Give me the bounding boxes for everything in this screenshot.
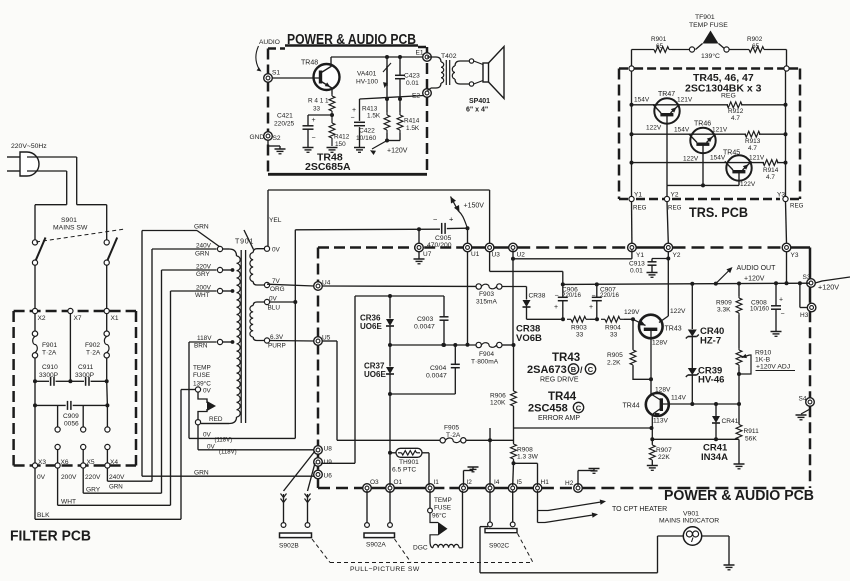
- svg-text:+: +: [312, 117, 316, 124]
- terminal X1: [104, 308, 109, 313]
- connector pins inside filter pcb: [57, 405, 59, 427]
- resistor R412 150: [331, 115, 333, 123]
- svg-text:C909: C909: [63, 413, 79, 420]
- svg-text:U2: U2: [517, 252, 526, 259]
- terminal X7: [68, 308, 73, 313]
- main pcb right border: [809, 248, 812, 279]
- svg-text:R413: R413: [362, 106, 378, 113]
- wire TR47 emitter: [666, 114, 668, 185]
- wire emitters join: [667, 184, 739, 186]
- svg-text:O3: O3: [370, 479, 379, 486]
- svg-text:F904: F904: [479, 351, 494, 358]
- T901 secondary 1: [253, 249, 264, 253]
- svg-text:X3: X3: [38, 459, 46, 466]
- svg-text:REG: REG: [721, 93, 736, 100]
- svg-text:220V: 220V: [85, 474, 101, 481]
- resistor R904 33: [590, 318, 597, 320]
- svg-text:CR41: CR41: [722, 418, 739, 425]
- svg-text:HZ-7: HZ-7: [700, 336, 721, 347]
- svg-text:S902B: S902B: [279, 543, 299, 550]
- svg-text:F902: F902: [85, 342, 100, 349]
- svg-text:220V: 220V: [196, 264, 212, 271]
- svg-text:H2: H2: [565, 480, 574, 487]
- svg-text:0V: 0V: [37, 474, 46, 481]
- resistor R411 33: [331, 94, 333, 96]
- svg-text:+: +: [554, 304, 558, 311]
- wire TRS feed left: [631, 50, 633, 66]
- wire Y3 column: [786, 252, 788, 284]
- svg-text:DGC: DGC: [413, 545, 428, 552]
- svg-text:U1: U1: [471, 251, 480, 258]
- svg-text:TRS. PCB: TRS. PCB: [689, 204, 748, 220]
- wire 0V(118V) lower to U8: [197, 425, 199, 450]
- fuse F903 315mA: [476, 284, 481, 289]
- svg-text:1K-B: 1K-B: [755, 357, 771, 364]
- svg-text:UO6E: UO6E: [364, 370, 386, 379]
- svg-text:O1: O1: [394, 479, 403, 486]
- wire YEL 0V to U3 net: [267, 190, 269, 246]
- svg-text:154V: 154V: [710, 155, 726, 162]
- terminal U9: [314, 458, 323, 467]
- svg-text:AUDIO: AUDIO: [259, 39, 280, 46]
- svg-text:I2: I2: [467, 479, 473, 486]
- svg-text:WHT: WHT: [61, 499, 76, 506]
- svg-text:220/16: 220/16: [600, 292, 619, 299]
- svg-text:TR44: TR44: [623, 403, 640, 410]
- svg-text:REG: REG: [668, 205, 682, 212]
- wire TH901 to I1: [428, 459, 430, 485]
- svg-text:−: −: [555, 293, 559, 300]
- svg-text:TH901: TH901: [399, 459, 419, 466]
- wire switch to X1: [106, 265, 108, 308]
- svg-text:TEMP: TEMP: [434, 497, 452, 504]
- terminal X2: [32, 308, 37, 313]
- svg-text:121V: 121V: [677, 97, 693, 104]
- svg-text:10/160: 10/160: [750, 306, 769, 313]
- wire U9 link: [321, 462, 355, 464]
- wire U1 column: [467, 228, 469, 243]
- svg-text:RED: RED: [209, 416, 223, 423]
- wire TR44 base line 114V: [663, 403, 739, 405]
- wire U9 to S902B: [308, 463, 316, 491]
- svg-text:R912: R912: [728, 108, 744, 115]
- to cpt heater arrows: [537, 491, 539, 523]
- svg-text:C903: C903: [417, 316, 433, 323]
- svg-text:+: +: [779, 297, 783, 304]
- switch S902A: [366, 491, 368, 523]
- svg-text:T·2A: T·2A: [86, 350, 101, 357]
- terminal H2: [574, 484, 583, 493]
- svg-text:−: −: [312, 135, 316, 142]
- svg-text:200V: 200V: [61, 474, 77, 481]
- svg-text:4.7: 4.7: [766, 174, 775, 181]
- capacitor C913 0.01: [667, 252, 669, 259]
- terminal Y3 main: [782, 243, 791, 252]
- svg-text:POWER & AUDIO PCB: POWER & AUDIO PCB: [287, 32, 416, 48]
- svg-text:Y3: Y3: [791, 252, 799, 259]
- rectifier mid rail: [388, 343, 392, 347]
- transistor TR45 2SC1304BK: [726, 155, 751, 180]
- tap 220V: [217, 267, 222, 272]
- wire F905 junction to R906 bottom: [489, 428, 491, 440]
- fuse terminals TF901: [689, 47, 694, 52]
- svg-text:129V: 129V: [624, 309, 640, 316]
- svg-text:S901: S901: [61, 217, 77, 224]
- capacitor C909 0056: [34, 381, 36, 405]
- resistor R901 6.5: [632, 49, 652, 51]
- zener CR40 HZ-7: [691, 284, 693, 329]
- pin Y2: [664, 196, 669, 201]
- wire R908 to H1: [514, 462, 538, 464]
- svg-text:C422: C422: [359, 128, 375, 135]
- svg-text:0V: 0V: [203, 432, 212, 439]
- svg-text:C910: C910: [42, 364, 58, 371]
- ground above I2: [463, 471, 465, 486]
- svg-text:TR45: TR45: [723, 150, 740, 157]
- svg-text:X5: X5: [87, 459, 95, 466]
- terminal U1: [463, 243, 472, 252]
- resistor R909 3.3K: [738, 284, 740, 297]
- svg-text:GRN: GRN: [195, 251, 210, 258]
- terminal S4: [806, 398, 815, 407]
- switch S902C: [489, 491, 491, 522]
- trs pcb border: [619, 67, 629, 70]
- svg-text:+: +: [352, 107, 356, 114]
- svg-text:−: −: [351, 115, 355, 122]
- svg-text:−: −: [433, 215, 438, 224]
- wire 128V rail: [527, 318, 564, 320]
- wire BLU 0V to ground rail: [270, 301, 296, 303]
- transistor TR43 2SA673 reg drive: [639, 315, 663, 339]
- wire U3 column to +120 rail: [489, 252, 491, 272]
- fuse F905 T-2A: [337, 439, 440, 441]
- svg-text:121V: 121V: [712, 127, 728, 134]
- trs rail 2: [630, 132, 634, 136]
- svg-text:TF901: TF901: [695, 14, 715, 21]
- +150V arrow: [458, 211, 468, 229]
- main pcb left border: [317, 248, 320, 446]
- svg-text:FUSE: FUSE: [434, 505, 451, 512]
- svg-text:TEMP FUSE: TEMP FUSE: [689, 22, 728, 29]
- svg-text:65: 65: [752, 43, 760, 50]
- terminal S1: [264, 74, 273, 83]
- rectifier box top: [355, 295, 444, 297]
- wire collector rail E1: [331, 56, 423, 58]
- main pcb bottom border: [318, 487, 363, 490]
- tap 118V: [217, 339, 222, 344]
- svg-text:4.7: 4.7: [731, 115, 740, 122]
- H3 hook: [799, 283, 801, 307]
- trs rail 3: [630, 161, 634, 165]
- mains plug P901: [20, 152, 39, 176]
- svg-text:F905: F905: [444, 425, 459, 432]
- svg-text:WHT: WHT: [195, 292, 210, 299]
- svg-text:+150V: +150V: [464, 203, 485, 210]
- svg-text:IN34A: IN34A: [701, 452, 728, 463]
- svg-text:GRY: GRY: [196, 271, 210, 278]
- svg-text:139°C: 139°C: [193, 380, 211, 388]
- svg-text:TEMP: TEMP: [193, 365, 211, 372]
- svg-text:33: 33: [610, 332, 618, 339]
- +120V rail: [563, 283, 810, 284]
- svg-text:S2: S2: [273, 135, 281, 142]
- svg-text:TR43: TR43: [665, 326, 682, 333]
- wire 0V(118V) upper: [189, 437, 295, 439]
- svg-text:PULL−PICTURE SW: PULL−PICTURE SW: [350, 566, 420, 573]
- T901 primary winding: [217, 246, 222, 251]
- svg-text:X4: X4: [110, 459, 118, 466]
- svg-text:X2: X2: [38, 315, 46, 322]
- svg-text:GRN: GRN: [194, 224, 209, 231]
- svg-text:I5: I5: [517, 479, 523, 486]
- svg-text:(118V): (118V): [219, 450, 237, 456]
- svg-text:C423: C423: [404, 73, 420, 80]
- terminal U8: [314, 446, 323, 455]
- temp fuse 96C: [429, 491, 431, 508]
- main pcb top border: [318, 246, 416, 249]
- wire 240V X4 to 240V tap: [106, 468, 108, 481]
- zener CR39 HV-46: [688, 368, 697, 375]
- svg-text:TR46: TR46: [694, 121, 711, 128]
- svg-text:2SC458: 2SC458: [528, 403, 568, 415]
- svg-text:T·2A: T·2A: [42, 350, 57, 357]
- svg-text:R903: R903: [571, 325, 587, 332]
- terminal U6: [314, 470, 323, 479]
- svg-text:0.0047: 0.0047: [414, 324, 435, 331]
- resistor R908 1.3 3W: [513, 428, 515, 443]
- svg-text:128V: 128V: [652, 340, 668, 347]
- svg-text:200V: 200V: [196, 285, 212, 292]
- svg-text:S902A: S902A: [366, 542, 386, 549]
- svg-text:GRN: GRN: [194, 470, 209, 477]
- svg-text:R 4 1 1: R 4 1 1: [308, 98, 329, 105]
- +120V feed arrow: [372, 141, 387, 150]
- svg-text:470/200: 470/200: [427, 242, 452, 249]
- svg-text:U3: U3: [492, 252, 501, 259]
- terminal H3: [807, 303, 816, 312]
- svg-text:S4: S4: [799, 396, 807, 403]
- svg-text:R904: R904: [605, 325, 621, 332]
- svg-text:SP401: SP401: [469, 98, 490, 105]
- svg-text:H3: H3: [800, 312, 809, 319]
- svg-text:GRN: GRN: [109, 484, 123, 491]
- svg-text:ERROR AMP: ERROR AMP: [538, 415, 580, 422]
- svg-text:−: −: [781, 311, 785, 318]
- svg-text:BRN: BRN: [194, 343, 208, 350]
- wire X7 down: [69, 314, 71, 382]
- terminal Y1 main: [628, 243, 637, 252]
- svg-text:X7: X7: [74, 315, 82, 322]
- svg-text:1.5K: 1.5K: [367, 113, 381, 120]
- svg-text:2SA673: 2SA673: [527, 364, 567, 376]
- resistor R903 33: [567, 318, 571, 320]
- switch link dashed: [36, 229, 125, 242]
- wire U8 to S902B: [284, 451, 316, 491]
- terminal U5: [314, 337, 323, 346]
- svg-text:I4: I4: [494, 479, 500, 486]
- svg-text:Y1: Y1: [634, 192, 642, 199]
- svg-text:33: 33: [576, 332, 584, 339]
- wire DGC to I2: [462, 491, 464, 548]
- svg-text:113V: 113V: [653, 418, 669, 425]
- svg-text:0056: 0056: [64, 421, 79, 428]
- svg-text:R905: R905: [607, 352, 623, 359]
- wire TRS feed right: [786, 50, 788, 66]
- fuse F901 T-2A: [34, 314, 36, 331]
- thermistor TH901 6.5 PTC: [390, 452, 396, 454]
- wire V901 right to ground: [702, 535, 729, 537]
- svg-text:22K: 22K: [658, 454, 670, 461]
- svg-text:0V: 0V: [207, 444, 216, 451]
- svg-text:C: C: [576, 404, 582, 413]
- svg-text:FUSE: FUSE: [193, 372, 210, 379]
- tap 200V: [217, 288, 222, 293]
- ground above H2: [577, 471, 579, 486]
- svg-text:T402: T402: [441, 53, 457, 60]
- svg-text:TR43: TR43: [552, 352, 580, 364]
- svg-text:R908: R908: [517, 447, 533, 454]
- wire R413 R414 bottom: [387, 140, 400, 142]
- svg-text:B: B: [571, 365, 577, 374]
- svg-text:C905: C905: [435, 235, 451, 242]
- svg-text:H1: H1: [541, 479, 550, 486]
- wire PURP to U5: [270, 340, 314, 343]
- svg-text:220/25: 220/25: [274, 121, 295, 128]
- svg-text:U7: U7: [423, 251, 432, 258]
- wire O1 column: [389, 394, 391, 453]
- svg-text:TR44: TR44: [548, 391, 577, 403]
- svg-text:2.2K: 2.2K: [607, 360, 621, 367]
- svg-text:PURP: PURP: [268, 343, 286, 350]
- resistor R905 2.2K: [632, 319, 634, 349]
- terminal E2: [423, 89, 432, 98]
- wire zener bottom rail: [652, 438, 740, 440]
- wire U2 branch: [511, 257, 515, 261]
- svg-text:120K: 120K: [490, 400, 506, 407]
- wire Y2 to main border: [667, 202, 668, 244]
- terminal S2: [264, 132, 273, 141]
- wire GRN bus to U6: [141, 231, 143, 477]
- rectifier bottom rail: [390, 393, 455, 395]
- svg-text:GRY: GRY: [86, 487, 101, 494]
- svg-text:10/160: 10/160: [356, 135, 377, 142]
- wire X2-X3 column: [34, 405, 36, 465]
- wire switch to X2: [34, 265, 36, 308]
- svg-text:V901: V901: [683, 511, 699, 518]
- svg-text:CR38: CR38: [529, 293, 546, 300]
- svg-text:ORG: ORG: [270, 286, 285, 293]
- diode CR41 IN34A: [715, 404, 717, 416]
- switch S902B: [281, 523, 286, 528]
- svg-text:BLU: BLU: [268, 305, 281, 312]
- wire Y2 to TR43 collector: [667, 259, 669, 317]
- svg-text:C913: C913: [629, 261, 645, 268]
- capacitor C905 470/200: [441, 223, 443, 234]
- svg-text:S902C: S902C: [489, 543, 509, 550]
- svg-text:HV-100: HV-100: [356, 79, 378, 86]
- terminal X6: [55, 463, 60, 468]
- svg-text:4.7: 4.7: [748, 145, 757, 152]
- svg-text:(118V): (118V): [215, 438, 233, 444]
- svg-text:33: 33: [313, 106, 321, 113]
- svg-text:1.5K: 1.5K: [406, 125, 420, 132]
- svg-text:F903: F903: [479, 291, 494, 298]
- wire plug to switch: [27, 156, 77, 158]
- svg-text:3.3K: 3.3K: [717, 307, 731, 314]
- svg-text:VA401: VA401: [357, 71, 377, 78]
- wire Y3 to main border: [786, 202, 787, 244]
- svg-text:R914: R914: [763, 167, 779, 174]
- svg-text:R907: R907: [656, 447, 672, 454]
- trs rail 1: [631, 71, 633, 196]
- pin Y3: [783, 196, 788, 201]
- terminal X4: [105, 463, 110, 468]
- svg-text:TO CPT HEATER: TO CPT HEATER: [612, 506, 667, 513]
- svg-text:REG: REG: [633, 205, 647, 212]
- svg-text:Y3: Y3: [777, 192, 785, 199]
- audio pcb border: [268, 47, 285, 50]
- svg-text:3300P: 3300P: [75, 372, 95, 379]
- svg-text:2SC685A: 2SC685A: [305, 161, 351, 173]
- svg-text:AUDIO OUT: AUDIO OUT: [737, 265, 777, 272]
- svg-text:240V: 240V: [196, 243, 212, 250]
- svg-text:114V: 114V: [671, 395, 687, 402]
- svg-text:Y1: Y1: [636, 252, 644, 259]
- svg-text:E2: E2: [412, 93, 420, 100]
- audio out arrow: [716, 269, 731, 284]
- svg-text:+120V ADJ: +120V ADJ: [756, 364, 790, 371]
- svg-text:S3: S3: [803, 274, 811, 281]
- svg-text:154V: 154V: [674, 127, 690, 134]
- svg-text:X1: X1: [111, 315, 119, 322]
- svg-text:R910: R910: [755, 350, 771, 357]
- svg-text:U9: U9: [324, 459, 333, 466]
- wire 118V tap loop: [189, 341, 217, 343]
- svg-text:TR48: TR48: [301, 60, 318, 67]
- capacitor C908 10/160: [775, 283, 777, 305]
- svg-text:REG: REG: [790, 203, 804, 210]
- svg-text:GND: GND: [250, 134, 265, 141]
- wire 0V tap to BLK bus: [181, 389, 195, 391]
- svg-text:+120V: +120V: [744, 276, 765, 283]
- terminal H1: [533, 484, 542, 493]
- svg-text:+120V: +120V: [818, 283, 839, 292]
- svg-text:T·800mA: T·800mA: [471, 359, 499, 366]
- svg-text:E1: E1: [416, 50, 424, 57]
- fuse F902 T-2A: [106, 314, 108, 331]
- svg-text:122V: 122V: [683, 156, 699, 163]
- svg-text:S1: S1: [272, 70, 280, 77]
- svg-text:122V: 122V: [670, 308, 686, 315]
- terminal U4: [314, 282, 323, 291]
- svg-text:1.3 3W: 1.3 3W: [517, 454, 539, 461]
- svg-text:240V: 240V: [109, 474, 125, 481]
- svg-text:0V: 0V: [203, 388, 212, 395]
- svg-text:96°C: 96°C: [432, 512, 447, 520]
- svg-text:+120V: +120V: [387, 148, 408, 155]
- svg-text:0V: 0V: [272, 247, 281, 254]
- terminal O1: [386, 484, 395, 493]
- terminal O3: [363, 484, 372, 493]
- speaker SP401: [474, 61, 483, 65]
- svg-text:POWER & AUDIO PCB: POWER & AUDIO PCB: [664, 488, 814, 504]
- wire E2 rail: [360, 96, 425, 100]
- svg-text:C421: C421: [277, 113, 293, 120]
- svg-text:R902: R902: [747, 36, 763, 43]
- +120V outside S3: [815, 277, 850, 283]
- wire WHT X6 to 200V tap: [57, 468, 59, 505]
- svg-text:6" x 4": 6" x 4": [466, 107, 488, 114]
